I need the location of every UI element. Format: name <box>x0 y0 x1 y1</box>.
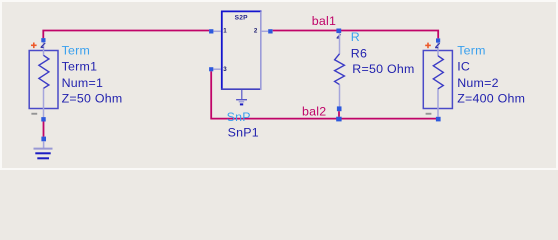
ground stub <box>43 141 45 148</box>
svg-text:Term: Term <box>62 43 91 57</box>
term IC box <box>423 51 452 109</box>
wire: bottom net bal2 from SnP pin3 to Term IC <box>211 71 436 118</box>
term Term1 pin1 tick <box>41 43 46 47</box>
svg-text:R6: R6 <box>351 46 367 60</box>
ground <box>34 149 53 159</box>
svg-text:Z=400 Ohm: Z=400 Ohm <box>457 91 525 105</box>
svg-text:R: R <box>351 30 360 44</box>
SnP1 pin2 node <box>268 29 272 33</box>
svg-text:SnP1: SnP1 <box>228 125 259 139</box>
term IC bottom pin node <box>436 117 441 122</box>
term Term1 resistor zigzag <box>39 55 49 88</box>
SnP1 reference ground <box>236 90 247 104</box>
wire: top net from Term1 to SnP pin1 <box>43 31 209 39</box>
term IC pin stubs <box>437 43 439 117</box>
term Term1 box <box>29 51 58 109</box>
resistor R6 bottom pin node <box>337 106 342 111</box>
resistor R6 zigzag <box>335 54 345 85</box>
term IC minus mark <box>426 113 432 115</box>
svg-text:Term: Term <box>457 43 486 57</box>
svg-text:Term1: Term1 <box>62 59 98 73</box>
term Term1 bottom pin node <box>41 117 45 121</box>
node bal1 junction square <box>336 29 341 34</box>
term IC top pin node <box>436 38 440 42</box>
wire: R6 bottom to bal2 <box>338 111 340 117</box>
wire: top net from SnP pin2 to Term2, node bal1 <box>273 31 439 39</box>
S-parameter block SnP1 box <box>221 11 262 90</box>
svg-text:bal2: bal2 <box>302 104 326 118</box>
svg-text:1: 1 <box>223 27 227 34</box>
wire: Term1 bottom to ground <box>43 121 45 136</box>
svg-text:bal1: bal1 <box>312 14 336 28</box>
canvas background <box>0 0 558 170</box>
svg-text:Num=1: Num=1 <box>62 76 104 90</box>
resistor R6 top stub <box>339 33 341 54</box>
term IC pin1 tick <box>435 43 440 47</box>
term IC resistor zigzag <box>433 56 443 89</box>
svg-text:S2P: S2P <box>235 14 249 21</box>
resistor R6 pin1 tick <box>337 34 341 38</box>
svg-text:2: 2 <box>254 28 258 35</box>
SnP1 pin stubs <box>213 31 268 69</box>
svg-text:Num=2: Num=2 <box>457 76 499 90</box>
term Term1 plus mark <box>31 43 37 49</box>
term IC plus mark <box>425 43 431 49</box>
term Term1 top pin node <box>41 38 45 42</box>
svg-text:Z=50 Ohm: Z=50 Ohm <box>62 91 123 105</box>
svg-text:R=50 Ohm: R=50 Ohm <box>352 62 414 76</box>
term Term1 pin stubs <box>43 42 45 117</box>
term Term1 minus mark <box>31 113 37 115</box>
svg-text:3: 3 <box>223 66 227 73</box>
node bal2 junction square <box>336 117 341 122</box>
svg-text:IC: IC <box>457 59 470 73</box>
resistor R6 bottom stub <box>339 85 341 107</box>
svg-text:SnP: SnP <box>227 110 251 124</box>
SnP1 pin1 node <box>209 29 213 33</box>
ground node square <box>41 137 46 142</box>
SnP1 pin3 node <box>209 67 213 71</box>
